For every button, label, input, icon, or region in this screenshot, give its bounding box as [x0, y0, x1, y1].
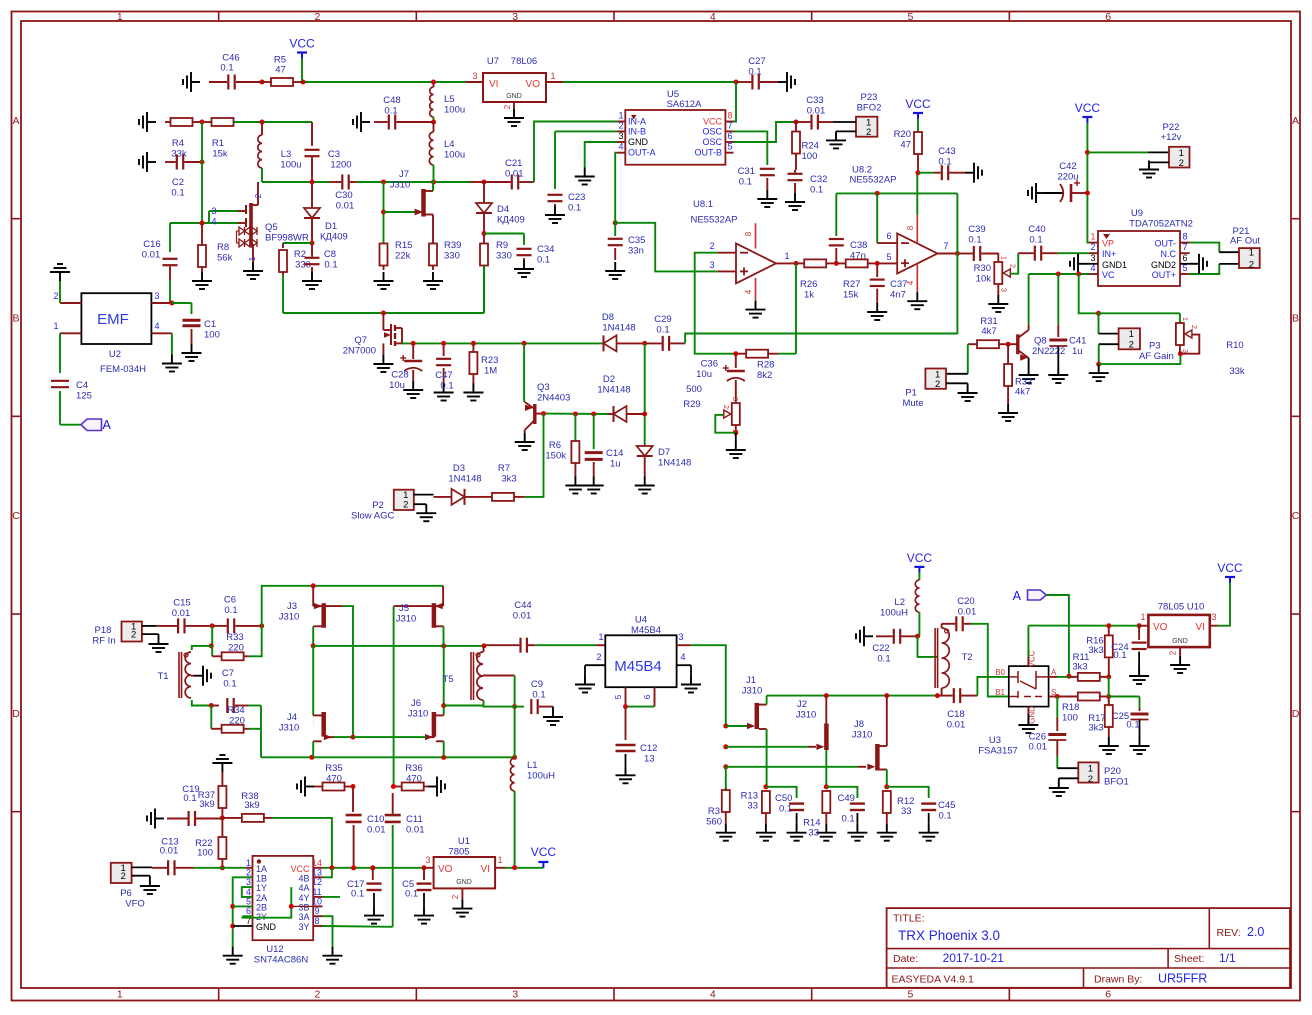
svg-text:J310: J310 — [279, 612, 300, 623]
svg-text:VP: VP — [1102, 239, 1114, 249]
svg-text:R20: R20 — [894, 129, 911, 140]
svg-text:0.1: 0.1 — [779, 804, 792, 815]
svg-text:2: 2 — [935, 379, 940, 390]
svg-text:L5: L5 — [444, 94, 455, 105]
svg-text:2: 2 — [53, 291, 58, 301]
svg-text:0.01: 0.01 — [505, 169, 524, 180]
svg-text:C37: C37 — [890, 279, 907, 290]
svg-text:R7: R7 — [498, 463, 510, 474]
svg-text:A: A — [1013, 589, 1022, 603]
svg-text:VI: VI — [1196, 622, 1205, 633]
svg-text:J310: J310 — [279, 723, 300, 734]
svg-text:R4: R4 — [172, 138, 184, 149]
svg-text:B: B — [1292, 312, 1299, 324]
svg-text:C38: C38 — [850, 240, 867, 251]
svg-text:L4: L4 — [444, 139, 455, 150]
svg-text:1N4148: 1N4148 — [658, 458, 691, 469]
svg-text:5: 5 — [886, 252, 891, 262]
svg-text:78L06: 78L06 — [511, 56, 537, 67]
svg-text:OUT-B: OUT-B — [694, 148, 722, 158]
svg-text:0.1: 0.1 — [739, 177, 752, 188]
svg-text:P20: P20 — [1104, 766, 1121, 777]
svg-text:12: 12 — [312, 877, 322, 887]
svg-text:2017-10-21: 2017-10-21 — [943, 951, 1005, 965]
svg-text:0.1: 0.1 — [224, 605, 237, 616]
svg-text:2: 2 — [866, 127, 871, 138]
svg-text:IN-A: IN-A — [628, 117, 646, 127]
svg-text:0.1: 0.1 — [748, 67, 761, 78]
svg-text:J7: J7 — [399, 169, 409, 180]
svg-text:AF Gain: AF Gain — [1139, 351, 1174, 362]
svg-text:6: 6 — [1182, 253, 1187, 263]
svg-text:C2: C2 — [172, 177, 184, 188]
svg-text:3: 3 — [618, 131, 623, 141]
svg-text:5: 5 — [246, 896, 251, 906]
svg-text:3: 3 — [731, 397, 740, 401]
svg-text:3: 3 — [425, 855, 430, 865]
svg-text:R26: R26 — [800, 279, 817, 290]
svg-text:P1: P1 — [905, 388, 917, 399]
svg-text:125: 125 — [76, 391, 92, 402]
svg-text:3k9: 3k9 — [199, 799, 214, 810]
svg-text:14: 14 — [312, 858, 322, 868]
svg-text:U8.1: U8.1 — [693, 199, 713, 210]
svg-text:2: 2 — [1129, 340, 1134, 351]
svg-text:0.1: 0.1 — [1113, 650, 1126, 661]
svg-text:КД409: КД409 — [497, 215, 525, 226]
svg-text:3: 3 — [1211, 612, 1216, 622]
svg-text:BFO1: BFO1 — [1104, 777, 1129, 788]
svg-text:A: A — [12, 115, 19, 127]
svg-text:OSC: OSC — [702, 126, 722, 136]
svg-text:7805: 7805 — [448, 847, 469, 858]
svg-text:SN74AC86N: SN74AC86N — [254, 955, 309, 966]
svg-text:2: 2 — [315, 989, 321, 1001]
svg-text:5: 5 — [727, 142, 732, 152]
svg-text:C28: C28 — [391, 370, 408, 381]
svg-text:3B: 3B — [298, 902, 309, 912]
svg-text:OUT+: OUT+ — [1152, 270, 1176, 280]
svg-text:1: 1 — [1090, 232, 1095, 242]
svg-text:0.1: 0.1 — [968, 235, 981, 246]
svg-text:0.1: 0.1 — [810, 185, 823, 196]
svg-text:C39: C39 — [968, 224, 985, 235]
svg-text:U9: U9 — [1131, 208, 1143, 219]
svg-text:3: 3 — [678, 632, 683, 642]
svg-text:3: 3 — [1181, 349, 1190, 353]
svg-text:Q3: Q3 — [537, 382, 550, 393]
svg-text:6: 6 — [246, 906, 251, 916]
svg-text:T1: T1 — [157, 671, 168, 682]
svg-text:0.1: 0.1 — [938, 157, 951, 168]
svg-text:C32: C32 — [810, 174, 827, 185]
svg-text:470: 470 — [326, 774, 342, 785]
svg-text:IN+: IN+ — [1102, 249, 1116, 259]
svg-text:3A: 3A — [298, 912, 309, 922]
svg-text:0.1: 0.1 — [532, 690, 545, 701]
svg-text:4A: 4A — [298, 883, 309, 893]
svg-text:NE5532AP: NE5532AP — [849, 175, 896, 186]
svg-text:OUT-: OUT- — [1155, 239, 1177, 249]
svg-text:33: 33 — [901, 806, 912, 817]
svg-text:R10: R10 — [1226, 340, 1243, 351]
svg-text:КД409: КД409 — [320, 232, 348, 243]
svg-text:7: 7 — [943, 241, 948, 251]
svg-text:+12v: +12v — [1161, 132, 1182, 143]
svg-text:0.1: 0.1 — [223, 679, 236, 690]
svg-text:4: 4 — [710, 989, 716, 1001]
svg-text:Slow AGC: Slow AGC — [351, 511, 394, 522]
svg-text:1: 1 — [618, 111, 623, 121]
svg-text:C18: C18 — [947, 709, 964, 720]
svg-text:B1: B1 — [995, 688, 1005, 697]
svg-text:0.01: 0.01 — [160, 846, 179, 857]
svg-text:3Y: 3Y — [298, 922, 309, 932]
svg-text:0.01: 0.01 — [406, 825, 425, 836]
svg-text:R36: R36 — [405, 763, 422, 774]
svg-text:1N4148: 1N4148 — [602, 323, 635, 334]
svg-text:3: 3 — [512, 989, 518, 1001]
svg-text:P3: P3 — [1149, 341, 1161, 352]
svg-text:U4: U4 — [635, 615, 647, 626]
svg-text:0.1: 0.1 — [220, 63, 233, 74]
svg-text:C: C — [1292, 510, 1300, 522]
svg-text:470: 470 — [406, 774, 422, 785]
svg-text:22k: 22k — [395, 251, 411, 262]
svg-text:C42: C42 — [1059, 161, 1076, 172]
svg-text:4: 4 — [618, 142, 623, 152]
svg-text:A: A — [103, 418, 112, 432]
svg-text:10: 10 — [312, 896, 322, 906]
svg-text:M45B4: M45B4 — [631, 625, 661, 636]
svg-text:1A: 1A — [256, 864, 267, 874]
svg-text:C49: C49 — [838, 793, 855, 804]
svg-text:100uH: 100uH — [527, 771, 555, 782]
svg-text:D4: D4 — [497, 204, 509, 215]
svg-text:100: 100 — [802, 151, 818, 162]
svg-text:1: 1 — [784, 251, 789, 261]
svg-text:11: 11 — [312, 887, 321, 897]
svg-text:VC: VC — [1102, 270, 1115, 280]
svg-text:0.1: 0.1 — [537, 255, 550, 266]
svg-text:1: 1 — [1181, 317, 1190, 321]
svg-text:GND: GND — [506, 93, 522, 100]
svg-text:J1: J1 — [746, 675, 756, 686]
svg-text:R28: R28 — [757, 360, 774, 371]
svg-text:U1: U1 — [458, 836, 470, 847]
svg-text:2N2222: 2N2222 — [1032, 346, 1065, 357]
svg-text:R27: R27 — [843, 279, 860, 290]
svg-text:R34: R34 — [227, 705, 244, 716]
svg-text:8: 8 — [1182, 232, 1187, 242]
svg-text:C27: C27 — [748, 56, 765, 67]
svg-text:C16: C16 — [143, 239, 160, 250]
svg-text:3: 3 — [472, 71, 477, 81]
svg-text:0.1: 0.1 — [656, 325, 669, 336]
svg-text:0.01: 0.01 — [172, 608, 191, 619]
svg-text:L2: L2 — [894, 597, 905, 608]
svg-text:C4: C4 — [76, 380, 88, 391]
svg-text:Sheet:: Sheet: — [1174, 953, 1204, 965]
svg-text:IN-B: IN-B — [628, 126, 646, 136]
svg-text:GND: GND — [256, 922, 277, 932]
svg-text:C48: C48 — [383, 95, 400, 106]
svg-text:4: 4 — [154, 321, 159, 331]
svg-text:220u: 220u — [1057, 172, 1078, 183]
svg-text:4: 4 — [680, 652, 685, 662]
svg-text:0.1: 0.1 — [405, 889, 418, 900]
svg-text:15k: 15k — [212, 149, 228, 160]
svg-text:3: 3 — [709, 260, 714, 270]
svg-text:C3: C3 — [328, 149, 340, 160]
svg-text:2: 2 — [131, 630, 136, 641]
svg-text:1: 1 — [53, 321, 58, 331]
svg-text:VFO: VFO — [125, 899, 145, 910]
svg-text:500: 500 — [686, 384, 702, 395]
svg-text:2: 2 — [451, 894, 460, 899]
svg-text:Q5: Q5 — [265, 222, 278, 233]
svg-text:VO: VO — [1153, 622, 1168, 633]
svg-text:P2: P2 — [372, 500, 384, 511]
svg-text:0.1: 0.1 — [842, 814, 855, 825]
svg-text:VCC: VCC — [907, 551, 933, 565]
svg-text:A: A — [1051, 668, 1057, 677]
svg-text:R39: R39 — [444, 240, 461, 251]
svg-text:5: 5 — [908, 11, 914, 23]
svg-text:0.01: 0.01 — [958, 607, 977, 618]
svg-text:1u: 1u — [610, 459, 621, 470]
svg-text:1k: 1k — [804, 290, 814, 301]
svg-text:3k3: 3k3 — [1088, 645, 1103, 656]
svg-text:R15: R15 — [395, 240, 412, 251]
svg-text:0.1: 0.1 — [939, 811, 952, 822]
svg-text:0.01: 0.01 — [1029, 742, 1048, 753]
svg-text:C14: C14 — [606, 448, 623, 459]
svg-text:C31: C31 — [738, 166, 755, 177]
svg-text:4k7: 4k7 — [1015, 387, 1030, 398]
svg-text:4: 4 — [744, 289, 753, 294]
svg-text:BFO2: BFO2 — [857, 103, 882, 114]
svg-text:4: 4 — [211, 217, 216, 227]
svg-text:J310: J310 — [742, 686, 763, 697]
svg-text:3: 3 — [999, 288, 1008, 292]
svg-text:1N4148: 1N4148 — [597, 385, 630, 396]
svg-text:0.01: 0.01 — [513, 611, 532, 622]
svg-text:5: 5 — [614, 694, 623, 699]
svg-text:2: 2 — [403, 500, 408, 511]
svg-text:33: 33 — [747, 801, 758, 812]
svg-text:1B: 1B — [256, 873, 267, 883]
svg-text:8: 8 — [314, 916, 319, 926]
svg-text:100: 100 — [204, 330, 220, 341]
svg-text:J2: J2 — [797, 699, 807, 710]
svg-text:R23: R23 — [481, 355, 498, 366]
svg-text:C23: C23 — [568, 192, 585, 203]
svg-text:4: 4 — [246, 887, 251, 897]
svg-text:R24: R24 — [802, 141, 819, 152]
svg-text:6: 6 — [643, 694, 652, 699]
svg-text:13: 13 — [644, 754, 655, 765]
svg-text:4: 4 — [710, 11, 716, 23]
svg-text:Date:: Date: — [893, 953, 918, 965]
svg-text:J6: J6 — [411, 698, 421, 709]
svg-text:R6: R6 — [549, 440, 561, 451]
svg-text:D7: D7 — [658, 447, 670, 458]
svg-text:3: 3 — [246, 877, 251, 887]
svg-text:D1: D1 — [325, 221, 337, 232]
svg-text:0.1: 0.1 — [1126, 720, 1139, 731]
svg-text:330: 330 — [496, 251, 512, 262]
svg-text:2.0: 2.0 — [1247, 925, 1264, 939]
svg-text:A: A — [1292, 115, 1299, 127]
svg-text:R29: R29 — [683, 399, 700, 410]
svg-text:8: 8 — [906, 225, 915, 230]
svg-text:C30: C30 — [335, 190, 352, 201]
svg-text:2: 2 — [254, 193, 263, 198]
svg-text:8k2: 8k2 — [757, 370, 772, 381]
svg-text:GND: GND — [456, 879, 472, 886]
svg-text:0.1: 0.1 — [183, 793, 196, 804]
svg-text:D8: D8 — [602, 312, 614, 323]
svg-text:Mute: Mute — [902, 398, 923, 409]
svg-text:1: 1 — [117, 989, 123, 1001]
svg-text:D: D — [12, 708, 20, 720]
svg-text:C45: C45 — [938, 800, 955, 811]
svg-text:8: 8 — [744, 231, 753, 236]
svg-text:100: 100 — [1062, 713, 1078, 724]
svg-text:C: C — [12, 510, 20, 522]
svg-text:220: 220 — [228, 643, 244, 654]
svg-text:1: 1 — [497, 855, 502, 865]
svg-text:1200: 1200 — [330, 160, 351, 171]
svg-text:330: 330 — [444, 251, 460, 262]
svg-text:GND: GND — [1172, 638, 1188, 645]
svg-text:R33: R33 — [226, 632, 243, 643]
svg-text:R1: R1 — [212, 138, 224, 149]
svg-text:Q7: Q7 — [354, 335, 367, 346]
svg-text:100uH: 100uH — [880, 608, 908, 619]
svg-text:J310: J310 — [852, 730, 873, 741]
svg-text:R3: R3 — [708, 806, 720, 817]
svg-text:13: 13 — [312, 867, 322, 877]
svg-text:J4: J4 — [287, 712, 297, 723]
svg-text:33k: 33k — [1229, 366, 1245, 377]
svg-text:0.1: 0.1 — [171, 188, 184, 199]
svg-text:T2: T2 — [961, 652, 972, 663]
svg-text:3k3: 3k3 — [1072, 662, 1087, 673]
svg-text:1M: 1M — [484, 366, 497, 377]
svg-text:C12: C12 — [640, 743, 657, 754]
svg-text:VO: VO — [526, 79, 541, 90]
svg-text:C35: C35 — [628, 235, 645, 246]
svg-text:BF998WR: BF998WR — [265, 233, 309, 244]
svg-text:VO: VO — [438, 864, 453, 875]
svg-text:100u: 100u — [444, 150, 465, 161]
svg-text:33: 33 — [808, 828, 819, 839]
svg-text:VI: VI — [489, 79, 498, 90]
svg-text:0.01: 0.01 — [142, 250, 161, 261]
svg-text:2B: 2B — [256, 902, 267, 912]
svg-text:VCC: VCC — [1217, 561, 1243, 575]
svg-text:15k: 15k — [843, 290, 859, 301]
svg-text:0.1: 0.1 — [877, 654, 890, 665]
svg-text:3: 3 — [512, 11, 518, 23]
svg-text:1/1: 1/1 — [1219, 951, 1236, 965]
svg-text:C15: C15 — [173, 598, 190, 609]
svg-text:J3: J3 — [287, 601, 297, 612]
svg-text:3: 3 — [154, 291, 159, 301]
svg-text:GND1: GND1 — [1102, 260, 1127, 270]
svg-text:RF In: RF In — [92, 636, 115, 647]
svg-text:C8: C8 — [324, 249, 336, 260]
svg-text:OSC: OSC — [702, 137, 722, 147]
svg-text:0.01: 0.01 — [336, 201, 355, 212]
svg-text:R2: R2 — [294, 249, 306, 260]
svg-text:R9: R9 — [496, 240, 508, 251]
svg-text:VCC: VCC — [1075, 101, 1101, 115]
svg-text:C44: C44 — [514, 600, 531, 611]
svg-text:2: 2 — [315, 11, 321, 23]
svg-text:J8: J8 — [854, 719, 864, 730]
svg-text:1: 1 — [117, 11, 123, 23]
svg-text:9: 9 — [314, 906, 319, 916]
svg-text:3: 3 — [1090, 253, 1095, 263]
svg-text:4Y: 4Y — [298, 893, 309, 903]
svg-text:C29: C29 — [654, 314, 671, 325]
svg-text:6: 6 — [1105, 11, 1111, 23]
svg-text:4: 4 — [906, 280, 915, 285]
svg-text:560: 560 — [706, 817, 722, 828]
svg-text:OUT-A: OUT-A — [628, 148, 656, 158]
svg-text:FSA3157: FSA3157 — [978, 746, 1018, 757]
svg-text:1: 1 — [246, 858, 251, 868]
svg-text:1: 1 — [1249, 248, 1254, 259]
svg-text:47: 47 — [275, 65, 286, 76]
svg-text:0.1: 0.1 — [384, 106, 397, 117]
svg-text:3k9: 3k9 — [244, 800, 259, 811]
svg-text:C33: C33 — [806, 95, 823, 106]
svg-text:2: 2 — [596, 652, 601, 662]
svg-text:R8: R8 — [217, 242, 229, 253]
svg-text:C50: C50 — [775, 793, 792, 804]
svg-text:6: 6 — [727, 131, 732, 141]
svg-text:C43: C43 — [938, 146, 955, 157]
svg-text:Q8: Q8 — [1034, 336, 1047, 347]
svg-text:33k: 33k — [171, 149, 187, 160]
svg-text:0.1: 0.1 — [324, 260, 337, 271]
svg-text:U3: U3 — [989, 735, 1001, 746]
svg-text:M45B4: M45B4 — [614, 658, 662, 675]
svg-text:J5: J5 — [399, 603, 409, 614]
svg-text:100u: 100u — [444, 105, 465, 116]
svg-text:VCC: VCC — [703, 117, 723, 127]
svg-text:L1: L1 — [527, 760, 538, 771]
svg-text:Drawn By:: Drawn By: — [1094, 974, 1142, 986]
svg-text:2: 2 — [121, 871, 126, 882]
svg-text:0.01: 0.01 — [807, 106, 826, 117]
svg-text:4n7: 4n7 — [890, 290, 906, 301]
svg-text:3k3: 3k3 — [1088, 723, 1103, 734]
svg-text:1: 1 — [550, 71, 555, 81]
svg-text:C9: C9 — [531, 679, 543, 690]
svg-text:8: 8 — [727, 111, 732, 121]
svg-text:3: 3 — [211, 206, 216, 216]
svg-text:1Y: 1Y — [256, 883, 267, 893]
svg-text:VCC: VCC — [905, 97, 931, 111]
svg-text:2N7000: 2N7000 — [343, 346, 376, 357]
svg-text:2: 2 — [618, 120, 623, 130]
svg-text:6: 6 — [886, 231, 891, 241]
